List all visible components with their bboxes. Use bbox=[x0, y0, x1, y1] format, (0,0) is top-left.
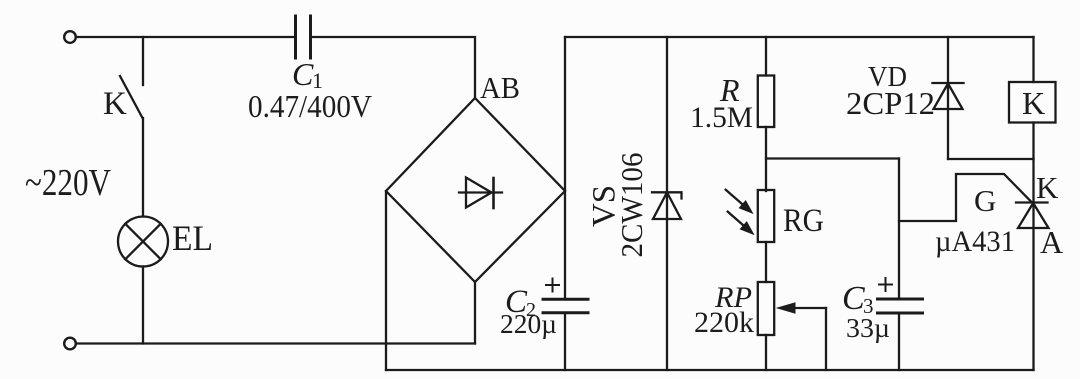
capacitor C3 bbox=[878, 299, 923, 313]
diode VD symbol bbox=[933, 83, 964, 109]
wire bottom AC rail bbox=[77, 342, 475, 344]
RG light arrow 1 bbox=[726, 190, 752, 213]
zener VS wire bbox=[666, 37, 668, 370]
switch K blade bbox=[120, 76, 143, 118]
capacitor C2 bbox=[543, 299, 588, 312]
wire R to RG bbox=[765, 127, 767, 191]
svg-text:2CW106: 2CW106 bbox=[614, 153, 649, 258]
wire VD bottom to relay branch bbox=[948, 158, 1034, 160]
wire C2 branch bbox=[564, 191, 566, 298]
zener VS symbol bbox=[652, 192, 682, 219]
wire C2 to bottom rail bbox=[564, 314, 566, 370]
capacitor C1 bbox=[296, 16, 311, 58]
bridge rectifier AB diamond bbox=[386, 98, 565, 282]
svg-text:~220V: ~220V bbox=[25, 162, 111, 204]
wire C3 branch bbox=[898, 159, 900, 299]
photoresistor RG bbox=[758, 190, 774, 242]
svg-text:2CP12: 2CP12 bbox=[846, 85, 935, 121]
wire bridge left vertex drop (DC-) bbox=[385, 191, 387, 370]
wire bridge right vertex riser (DC+) bbox=[564, 37, 566, 191]
wire C3 to bottom rail bbox=[898, 313, 900, 370]
svg-text:C: C bbox=[292, 56, 314, 92]
svg-text:AB: AB bbox=[480, 70, 520, 105]
RG light arrow 2 bbox=[728, 212, 753, 234]
resistor R feed wire bbox=[765, 37, 767, 76]
relay K coil box bbox=[1009, 82, 1056, 123]
wire RP bottom bbox=[765, 335, 767, 370]
lamp EL bbox=[118, 217, 168, 267]
wire switch to lamp bbox=[142, 118, 144, 217]
svg-text:220µ: 220µ bbox=[500, 309, 557, 339]
svg-text:33µ: 33µ bbox=[846, 313, 890, 343]
wire RG to RP bbox=[765, 242, 767, 282]
svg-text:K: K bbox=[103, 86, 127, 122]
svg-text:A: A bbox=[1040, 224, 1063, 260]
wire relay to uA431 cathode bbox=[1032, 123, 1034, 371]
svg-text:K: K bbox=[1022, 85, 1045, 121]
C3 plus sign bbox=[879, 278, 892, 291]
wire G net bbox=[899, 174, 1031, 221]
relay K feed wire bbox=[1032, 37, 1034, 82]
terminal bottom-left bbox=[64, 338, 76, 350]
svg-text:0.47/400V: 0.47/400V bbox=[248, 88, 372, 124]
resistor R bbox=[758, 76, 774, 128]
C2 plus sign bbox=[546, 279, 559, 292]
wire divider node to C3 branch bbox=[766, 157, 899, 159]
svg-text:G: G bbox=[974, 183, 996, 218]
svg-text:K: K bbox=[1036, 170, 1059, 205]
wire wiper drop bbox=[825, 308, 827, 370]
uA431 symbol bbox=[1016, 203, 1049, 229]
svg-text:1.5M: 1.5M bbox=[690, 101, 753, 134]
svg-text:EL: EL bbox=[172, 218, 213, 258]
potentiometer RP bbox=[758, 282, 774, 335]
terminal top-left bbox=[64, 31, 76, 43]
svg-text:µA431: µA431 bbox=[935, 225, 1015, 258]
wire DC- bottom rail bbox=[386, 369, 1034, 371]
svg-text:C: C bbox=[842, 280, 865, 317]
diode VD wire bbox=[947, 37, 949, 159]
svg-text:RG: RG bbox=[783, 203, 824, 239]
wire switch feed bbox=[142, 37, 144, 85]
bridge inner diode bbox=[459, 178, 502, 209]
svg-text:220k: 220k bbox=[694, 306, 754, 339]
wire C1 to bridge top bbox=[312, 37, 475, 97]
RP wiper arrow bbox=[778, 303, 827, 313]
wire lamp to bottom rail bbox=[142, 267, 144, 344]
wire bridge bottom vertex drop bbox=[474, 282, 476, 344]
wire top AC rail left bbox=[77, 36, 294, 38]
wire DC+ top rail bbox=[565, 36, 1034, 38]
